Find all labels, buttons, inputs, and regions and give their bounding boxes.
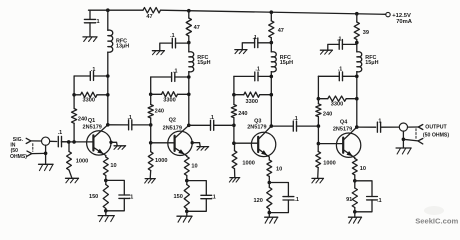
- resistor 10 (stage 4 emitter): [352, 158, 366, 181]
- capacitor .1 (stage 3 emitter bypass): [268, 183, 299, 215]
- svg-text:1000: 1000: [155, 158, 167, 164]
- wire coupling node to base (stage 3): [232, 125, 236, 145]
- transistor Q1 2N5179: [61, 118, 111, 156]
- capacitor .1 (supply rail bypass): [84, 10, 99, 37]
- wire stage4 node to RFC: [356, 43, 358, 52]
- capacitor .1 (coupling stage 3 to stage 4): [271, 116, 318, 131]
- svg-text:.1: .1: [127, 115, 132, 121]
- svg-text:15μH: 15μH: [280, 60, 293, 66]
- capacitor .1 (stage 1 emitter bypass): [104, 180, 133, 212]
- capacitor .1 (stage 1 feedback): [74, 67, 110, 81]
- svg-text:10: 10: [276, 166, 282, 172]
- ground (stage 2 bypass): [152, 51, 164, 55]
- resistor 1000 (stage 3 base): [232, 143, 255, 177]
- svg-text:240: 240: [323, 112, 332, 118]
- wire RFC to collector (stage 3): [270, 72, 272, 126]
- svg-text:13μH: 13μH: [116, 43, 129, 49]
- inductor RFC 15µH (stage 2): [189, 52, 211, 72]
- resistor 240 (stage 3): [231, 95, 247, 118]
- node input shield junction: [44, 145, 48, 164]
- ground (stage 4 emitter): [349, 212, 362, 223]
- transistor Q3 2N5179: [234, 118, 276, 157]
- capacitor .1 (output coupling): [377, 118, 399, 132]
- svg-text:1000: 1000: [76, 159, 88, 165]
- node Q1 base junction: [72, 123, 76, 143]
- resistor 3300 (stage 2 feedback): [151, 92, 191, 104]
- wire RFC to collector (stage 1): [107, 52, 109, 125]
- svg-text:2N5179: 2N5179: [333, 126, 352, 132]
- resistor 10 (stage 3 emitter): [267, 157, 282, 183]
- svg-text:10: 10: [110, 163, 116, 169]
- svg-text:3300: 3300: [331, 102, 343, 108]
- svg-text:2N5179: 2N5179: [83, 124, 102, 130]
- wire +12.5V supply rail: [89, 10, 386, 14]
- ground (output): [396, 148, 411, 154]
- svg-text:1000: 1000: [323, 161, 335, 167]
- node stage2 coupling junction: [149, 118, 153, 127]
- svg-text:15μH: 15μH: [197, 60, 210, 66]
- svg-text:2N5179: 2N5179: [247, 125, 266, 131]
- resistor 10 (stage 1 emitter): [103, 156, 116, 181]
- svg-text:47: 47: [194, 25, 200, 31]
- resistor 3300 (stage 4 feedback): [318, 96, 358, 108]
- svg-text:.1: .1: [338, 67, 343, 73]
- ground (stage 3 base resistor): [229, 178, 239, 183]
- node stage1 collector junction: [106, 123, 110, 127]
- capacitor .1 (input coupling): [58, 130, 69, 147]
- wire rail to resistor 47 (stage 3): [270, 12, 272, 21]
- resistor 47 (supply rail series): [143, 8, 161, 21]
- wire input jack to coupling cap: [50, 140, 57, 142]
- svg-text:Q2: Q2: [169, 117, 176, 123]
- wire output dashed link: [415, 129, 417, 139]
- wire feedback node (stage 1): [72, 76, 76, 97]
- ground (stage 4 base resistor): [312, 178, 324, 183]
- node stage4 collector junction: [355, 125, 359, 129]
- ground (stage 2 emitter): [177, 211, 192, 222]
- ground (rail bypass): [83, 37, 97, 42]
- capacitor .1 (stage 4 bypass): [328, 37, 357, 51]
- resistor 120 (stage 3 emitter shunt): [254, 183, 272, 213]
- node stage2 RFC top: [187, 36, 191, 44]
- ground (stage 3 bypass): [235, 50, 247, 54]
- output pin arrow (signal): [408, 125, 423, 130]
- svg-text:.1: .1: [293, 116, 298, 122]
- wire RFC to collector (stage 4): [356, 72, 358, 127]
- svg-text:SeekIC.com: SeekIC.com: [415, 216, 458, 225]
- node stage3 emitter junction: [268, 181, 272, 185]
- ground (input): [39, 164, 54, 170]
- node stage2 emitter junction: [185, 179, 189, 183]
- node output shield junction: [402, 131, 406, 147]
- ground (stage 2 base resistor): [145, 179, 156, 184]
- node input base junction: [67, 140, 71, 144]
- svg-text:Q4: Q4: [340, 120, 348, 126]
- capacitor .1 (stage 3 feedback): [234, 67, 273, 81]
- svg-text:39: 39: [363, 30, 369, 36]
- inductor RFC 13µH (stage 1): [108, 30, 129, 52]
- resistor 1000 (stage 4 base): [316, 144, 336, 179]
- svg-text:.1: .1: [58, 130, 63, 136]
- svg-text:Q1: Q1: [88, 118, 95, 124]
- input jack circle: [42, 137, 50, 145]
- resistor 47 (stage 3 decoupling): [269, 21, 284, 38]
- svg-text:(50 OHMS): (50 OHMS): [423, 132, 450, 138]
- node stage3 coupling junction: [232, 118, 236, 127]
- node stage3 rail junction: [270, 10, 274, 14]
- node stage1 emitter junction: [104, 179, 108, 183]
- svg-text:3300: 3300: [246, 99, 258, 105]
- wire feedback node (stage 2): [149, 77, 153, 96]
- ground (Q2 case lead): [191, 141, 209, 150]
- node stage1 rail junction: [106, 8, 110, 12]
- svg-text:150: 150: [174, 194, 183, 200]
- wire coupling node to base (stage 4): [317, 126, 321, 145]
- svg-text:.1: .1: [129, 195, 134, 201]
- svg-text:.1: .1: [377, 118, 382, 124]
- ground (stage 1 base resistor): [66, 178, 79, 183]
- node stage2 rail junction: [187, 9, 191, 13]
- svg-text:.1: .1: [209, 115, 214, 121]
- wire feedback node (stage 3): [232, 76, 236, 96]
- svg-text:3300: 3300: [83, 98, 95, 104]
- inductor RFC 15µH (stage 4): [357, 52, 379, 72]
- capacitor .1 (stage 2 bypass): [160, 33, 189, 51]
- svg-text:47: 47: [146, 14, 152, 20]
- svg-text:240: 240: [155, 108, 164, 114]
- node stage4 rail junction: [355, 12, 359, 16]
- ground (Q1 case lead): [109, 141, 125, 150]
- capacitor .1 (coupling stage 2 to stage 3): [189, 115, 234, 130]
- ground (stage 3 emitter): [265, 213, 278, 224]
- resistor 240 (stage 1): [72, 95, 88, 124]
- node stage3 RFC top: [270, 38, 274, 45]
- svg-text:150: 150: [89, 194, 98, 200]
- node stage4 coupling junction: [317, 117, 321, 128]
- node stage4 RFC top: [355, 40, 359, 45]
- capacitor .1 (stage 4 feedback): [318, 67, 358, 81]
- node stage2 collector junction: [187, 124, 191, 128]
- svg-text:15μH: 15μH: [365, 60, 378, 66]
- resistor 150 (stage 1 emitter shunt): [89, 180, 108, 210]
- wire rail to RFC1: [107, 10, 109, 30]
- wire RFC to collector (stage 2): [188, 72, 190, 126]
- svg-text:Q3: Q3: [254, 118, 261, 124]
- transistor Q4 2N5179: [318, 120, 360, 158]
- svg-text:.1: .1: [294, 197, 299, 203]
- svg-text:OUTPUT: OUTPUT: [425, 125, 447, 131]
- svg-text:47: 47: [278, 28, 284, 34]
- svg-text:.1: .1: [211, 194, 216, 200]
- wire stage3 node to RFC: [270, 43, 272, 52]
- resistor 3300 (stage 3 feedback): [234, 92, 273, 105]
- resistor 47 (stage 2 decoupling): [186, 18, 200, 36]
- node stage4 emitter junction: [353, 179, 357, 183]
- capacitor .1 (stage 4 emitter bypass): [353, 181, 382, 214]
- svg-text:240: 240: [78, 117, 87, 123]
- resistor 1000 (stage 1 base): [67, 142, 89, 178]
- supply terminal +12.5V 70mA: [386, 12, 413, 24]
- ground (stage 1 emitter): [98, 211, 114, 222]
- output jack circle: [399, 123, 407, 131]
- input pin arrow (shield): [27, 151, 46, 156]
- capacitor .1 (stage 2 feedback): [151, 69, 191, 82]
- svg-text:10: 10: [191, 164, 197, 170]
- node stage3 collector junction: [270, 124, 274, 128]
- wire rail to resistor 39 (stage 4): [356, 14, 358, 22]
- input connector SIG. IN (50 OHMS): [10, 137, 27, 160]
- resistor 3300 (stage 1 feedback): [74, 92, 110, 103]
- svg-text:.1: .1: [377, 198, 382, 204]
- watermark SeekIC.com: [415, 206, 458, 225]
- resistor 240 (stage 4): [316, 99, 332, 118]
- capacitor .1 (stage 3 bypass): [242, 35, 271, 49]
- resistor 240 (stage 2): [148, 94, 164, 118]
- inductor RFC 15µH (stage 3): [271, 52, 293, 72]
- resistor 1000 (stage 2 base): [148, 143, 167, 179]
- wire shield to lower pin: [403, 139, 422, 144]
- wire rail to resistor 47 (stage 2): [188, 11, 190, 18]
- capacitor .1 (coupling stage 1 to stage 2): [108, 115, 151, 130]
- svg-text:3300: 3300: [163, 97, 175, 103]
- svg-text:91: 91: [346, 197, 352, 203]
- svg-text:240: 240: [238, 111, 247, 117]
- svg-text:120: 120: [254, 198, 263, 204]
- wire coupling node to base (stage 2): [149, 125, 153, 145]
- svg-text:1000: 1000: [242, 161, 254, 167]
- transistor Q2 2N5179: [151, 117, 193, 155]
- input pin arrow (signal): [26, 138, 41, 143]
- svg-text:.1: .1: [95, 19, 100, 25]
- resistor 39 (stage 4 decoupling): [354, 22, 369, 40]
- output labels: [423, 125, 450, 139]
- wire shield dashed link: [32, 144, 34, 152]
- svg-text:OHMS): OHMS): [10, 154, 27, 160]
- svg-text:70mA: 70mA: [396, 19, 413, 25]
- ground (stage 4 bypass): [320, 50, 332, 54]
- wire feedback node (stage 4): [317, 76, 321, 100]
- wire Q4 collector to output cap: [357, 126, 376, 128]
- capacitor .1 (stage 2 emitter bypass): [185, 181, 216, 214]
- resistor 150 (stage 2 emitter shunt): [174, 181, 190, 212]
- wire stage2 node to RFC: [188, 43, 190, 52]
- resistor 10 (stage 2 emitter): [184, 156, 197, 181]
- resistor 91 (stage 4 emitter shunt): [346, 181, 357, 212]
- svg-text:10: 10: [360, 166, 366, 172]
- svg-text:2N5179: 2N5179: [163, 125, 182, 131]
